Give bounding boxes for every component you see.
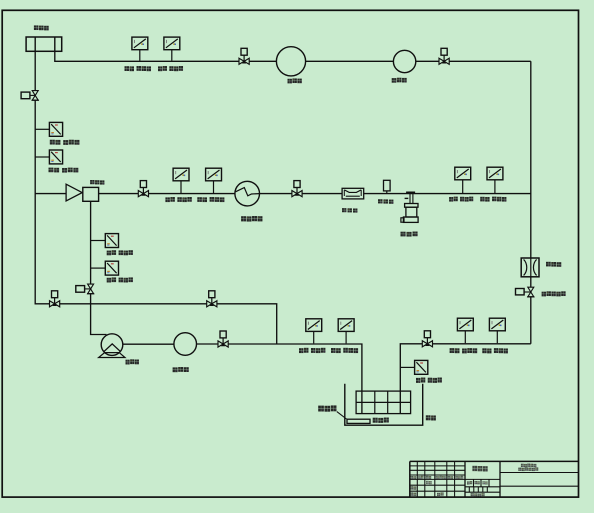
label: pressure sensor S2 xyxy=(158,66,183,71)
sensor S14 pressure transmitter (tank outlet) xyxy=(489,318,505,331)
valve V1 solenoid (top pipe) xyxy=(239,48,249,64)
valve V5 solenoid (bottom-left line) xyxy=(50,291,60,307)
label: organization name line 1 xyxy=(521,464,537,468)
label: expansion valve VV3 xyxy=(542,291,566,296)
sensor S3 temperature transmitter (left vertical) xyxy=(49,122,62,136)
wire: compressor discharge to heat exchanger xyxy=(99,193,235,195)
sensor S15 temperature transmitter (tank) xyxy=(415,360,428,374)
sensor S9 temperature transmitter (compressor line) xyxy=(105,234,118,248)
label: condenser xyxy=(288,78,302,83)
wire: receiver to right corner xyxy=(416,60,531,62)
label: safety valve SG xyxy=(378,199,393,204)
sensor S10 pressure transmitter (compressor line) xyxy=(105,261,118,275)
receiver circle C2 xyxy=(393,50,415,72)
sensor S12 pressure transmitter (bottom pipe) xyxy=(338,319,354,332)
label: temperature sensor S7 xyxy=(449,197,473,202)
electric heater bar in tank xyxy=(347,419,370,423)
label: muffler xyxy=(34,25,49,30)
valve V8 solenoid (tank outlet pipe) xyxy=(422,331,432,347)
label: title block left column small texts xyxy=(410,481,443,496)
wire: muffler outlet down and top pipe to condenser xyxy=(55,51,277,61)
label: pressure sensor S8 xyxy=(480,197,506,202)
wire: compressor bottom line down to vacuum pump xyxy=(91,202,107,335)
label: temperature sensor S1 xyxy=(125,66,152,71)
label: heat exchanger xyxy=(241,216,262,222)
title block grid xyxy=(410,461,579,497)
valve VV2 solenoid on compressor down line xyxy=(76,284,94,294)
label: heater xyxy=(318,405,336,411)
plunger metering pump PP xyxy=(401,192,418,223)
wire: right-side vertical main xyxy=(530,61,532,344)
label: temperature sensor S3 xyxy=(50,140,80,145)
flow meter FM2 (square with concave lens) xyxy=(521,258,539,277)
expansion valve VV3 on right vertical xyxy=(516,287,535,297)
wire: heat exchanger to right vertical xyxy=(260,193,531,195)
valve VV1 solenoid on left vertical line xyxy=(21,91,39,101)
condenser circle C1 xyxy=(276,47,305,76)
label: temperature sensor S5 xyxy=(165,197,191,202)
valve V7 solenoid (bottom pipe) xyxy=(218,331,228,347)
label: title block revision row tiny text xyxy=(410,476,463,479)
heater circle C4 xyxy=(174,333,197,356)
wire: left vertical from muffler down, bottom-left run, drop to bottom pipe xyxy=(35,51,277,344)
compressor U1 (triangle drive + box) xyxy=(66,184,99,201)
label: temperature sensor S13 xyxy=(450,348,478,353)
label: vacuum pump xyxy=(126,359,139,364)
wire: heater circle to tank inlet drop xyxy=(197,344,362,413)
sensor S6 pressure transmitter (discharge) xyxy=(206,168,222,181)
wire: vacuum pump outlet to heater circle xyxy=(123,343,174,345)
sensor S1 temperature transmitter (top pipe) xyxy=(132,37,148,50)
sensor S7 temperature transmitter (before right vertical) xyxy=(455,167,471,180)
label: organization name line 2 xyxy=(518,467,538,471)
label: temperature sensor S15 xyxy=(416,378,442,383)
label: pressure sensor S4 xyxy=(49,168,79,173)
wire: heater label pointer xyxy=(337,412,347,419)
label: temperature sensor S11 xyxy=(299,348,325,353)
label: pressure sensor S10 xyxy=(107,277,133,282)
valve V3 solenoid (discharge pipe) xyxy=(138,181,148,197)
sensor S4 pressure transmitter (left vertical) xyxy=(49,150,62,164)
valve V6 solenoid (bottom-left line) xyxy=(207,291,217,307)
label: pressure sensor S6 xyxy=(197,197,224,202)
label: flow meter FM1 xyxy=(342,208,357,212)
heat exchanger circle C3 with zigzag xyxy=(235,181,260,206)
sensor S2 pressure transmitter (top pipe) xyxy=(164,37,180,50)
label: pressure sensor S12 xyxy=(331,348,358,353)
evaporator coil grid in tank xyxy=(356,391,411,414)
label: temperature sensor S9 xyxy=(107,250,133,255)
sensor S11 temperature transmitter (bottom pipe) xyxy=(306,319,322,332)
wire: tank outlet riser and bottom-right run to corner xyxy=(400,344,531,414)
water tank (open top) xyxy=(345,384,423,425)
label: evaporator coil xyxy=(373,418,389,423)
vacuum pump P1 (circle with chevron and base) xyxy=(99,334,125,358)
sensor S13 temperature transmitter (tank outlet) xyxy=(457,318,473,331)
label: pressure sensor S14 xyxy=(482,348,508,353)
wire: condenser to receiver xyxy=(306,60,394,62)
valve V2 solenoid (top pipe right) xyxy=(439,48,449,64)
safety valve / sight glass SG on stem xyxy=(384,180,391,193)
flow meter FM1 (inline, lens shape) xyxy=(342,188,364,199)
muffler (silencer) vessel xyxy=(26,37,62,51)
label: drawing title (assembly drawing) xyxy=(472,466,487,472)
label: heater circle xyxy=(173,367,189,372)
sensor S5 temperature transmitter (discharge) xyxy=(173,168,189,181)
label: water tank xyxy=(426,415,436,420)
label: flow meter FM2 xyxy=(546,262,561,267)
label: receiver xyxy=(392,78,407,83)
wire: suction pipe into compressor xyxy=(35,193,66,195)
label: title block middle small texts xyxy=(467,481,488,497)
sensor S8 pressure transmitter (before right vertical) xyxy=(487,167,503,180)
label: compressor xyxy=(90,180,104,185)
valve V4 solenoid (after heat exchanger) xyxy=(292,181,302,197)
label: metering pump PP xyxy=(401,232,418,237)
